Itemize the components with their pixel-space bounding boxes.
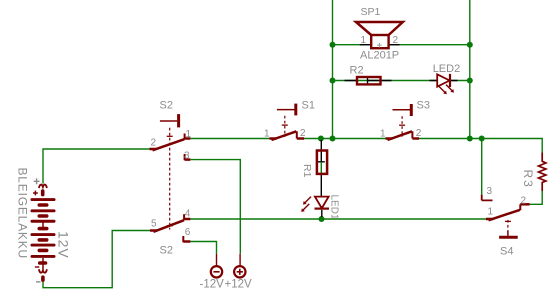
junction node: R2 row right <box>467 78 473 84</box>
svg-text:4: 4 <box>185 208 191 219</box>
wire: S4 pin3 vertical from bus <box>481 139 483 195</box>
wire: main bus y=138.5 from S2 pin1 to S1 <box>190 138 269 140</box>
wire: S2 pin6 net to -12V supply vertical <box>190 242 216 254</box>
label BLEIGELAKKU (rotated) <box>16 168 30 260</box>
label SP1 <box>361 6 381 18</box>
label S3 <box>417 100 430 112</box>
wire: battery minus to riser up to S2 pin5 <box>43 231 150 288</box>
pin number 4 of S2 <box>185 208 191 219</box>
svg-text:S2: S2 <box>160 100 173 112</box>
switch S3 contacts and lever <box>386 131 420 140</box>
switch S2 linkage dashed line <box>167 128 173 230</box>
label LED2 <box>433 63 461 75</box>
svg-text:-12V: -12V <box>200 279 225 291</box>
svg-text:2: 2 <box>300 128 306 139</box>
speaker SP1 pin leads <box>360 44 400 46</box>
wire: left vertical net from top edge down to main bus <box>332 0 334 139</box>
wire: battery plus riser and S2 common pin2 <box>43 149 149 184</box>
switch S1 linkage dashed line <box>282 116 288 137</box>
svg-text:2: 2 <box>416 128 422 139</box>
svg-text:1: 1 <box>264 129 270 140</box>
junction node: bus / right vertical <box>467 136 473 142</box>
wire: S4 pin2 to R3 bottom <box>530 191 543 204</box>
switch S4 pin3 contact hook <box>482 195 493 201</box>
LED D1 <box>301 197 329 217</box>
supply terminal -12V <box>211 254 222 278</box>
LED D2 <box>437 74 454 94</box>
svg-text:5: 5 <box>151 218 157 229</box>
supply terminal +12V <box>234 254 245 278</box>
switch S1 actuator T-bar <box>277 104 296 116</box>
label S4 <box>500 246 513 258</box>
label R1 (rotated) <box>301 164 313 178</box>
svg-text:S3: S3 <box>417 100 430 112</box>
speaker SP1 <box>356 22 403 48</box>
switch S4 contacts and lever <box>486 204 530 220</box>
label AL201P value <box>360 50 399 62</box>
label 12V (rotated) <box>56 231 72 259</box>
svg-text:S4: S4 <box>500 246 513 258</box>
wire: speaker row horizontal net <box>333 44 470 46</box>
pin number 3 of S2 <box>184 151 190 162</box>
pin number 2 of S2 <box>151 138 157 149</box>
svg-text:R1: R1 <box>301 164 313 178</box>
wire: right vertical net from top edge down to main bus <box>469 0 471 139</box>
svg-text:2: 2 <box>151 138 157 149</box>
svg-text:12V: 12V <box>56 231 72 259</box>
junction node: bus / R1 top <box>318 136 324 142</box>
junction node: speaker row left <box>330 42 336 48</box>
resistor R1 <box>317 151 327 174</box>
battery G1 BLEIGELAKKU <box>31 178 56 282</box>
resistor R2 <box>357 77 381 84</box>
label S1 <box>302 100 315 112</box>
svg-text:R3: R3 <box>521 170 535 189</box>
switch S3 actuator T-bar <box>393 104 412 116</box>
svg-text:1: 1 <box>186 129 192 140</box>
label S2 upper <box>160 100 173 112</box>
svg-text:AL201P: AL201P <box>360 50 399 62</box>
pin number 1 of S2 <box>186 129 192 140</box>
junction node: bottom bus / LED1 cathode <box>319 216 325 222</box>
pin number 1 of S1 <box>264 129 270 140</box>
pin number 3 of S4 <box>487 186 493 197</box>
junction node: speaker row right <box>467 42 473 48</box>
svg-text:LED1: LED1 <box>329 195 340 220</box>
resistor R1 pin leads <box>318 140 325 196</box>
wire: main bus S3 pin2 to right corner, down to R3 <box>419 139 542 153</box>
pin number 1 of SP1 <box>361 35 367 46</box>
switch S4 actuator T-bar <box>499 231 518 238</box>
label R2 <box>350 65 364 77</box>
label LED1 (rotated) <box>329 195 340 220</box>
svg-text:1: 1 <box>361 35 367 46</box>
svg-text:BLEIGELAKKU: BLEIGELAKKU <box>16 168 30 260</box>
svg-text:S2: S2 <box>160 245 173 257</box>
pin number 5 of S2 <box>151 218 157 229</box>
svg-text:R2: R2 <box>350 65 364 77</box>
label +12V <box>225 279 253 291</box>
pin number 6 of S2 <box>185 227 191 238</box>
switch S2 upper pole actuator T-bar <box>160 114 179 127</box>
resistor R3 (zigzag) <box>539 153 546 192</box>
svg-text:+12V: +12V <box>225 279 253 291</box>
LED2 pin leads <box>430 80 458 82</box>
svg-text:6: 6 <box>185 227 191 238</box>
svg-text:S1: S1 <box>302 100 315 112</box>
wire: S2 pin3 net to +12V supply vertical <box>190 160 240 254</box>
pin number 2 of S3 <box>416 128 422 139</box>
svg-text:3: 3 <box>184 151 190 162</box>
junction node: R2 row left <box>330 78 336 84</box>
wire: main bus S1 pin2 to S3 pin1 <box>304 138 385 140</box>
switch S4 linkage dashed line <box>505 220 511 231</box>
svg-text:1: 1 <box>380 129 386 140</box>
svg-text:LED2: LED2 <box>433 63 461 75</box>
label R3 (rotated) <box>521 170 535 189</box>
pin number 2 of S1 <box>300 128 306 139</box>
pin number 2 of S4 <box>521 195 527 206</box>
pin number 2 of SP1 <box>393 35 399 46</box>
svg-text:2: 2 <box>393 35 399 46</box>
pin number 1 of S4 <box>488 207 494 218</box>
svg-text:SP1: SP1 <box>361 6 381 18</box>
junction node: bus / S4 pin3 <box>479 136 485 142</box>
label -12V <box>200 279 225 291</box>
label S2 lower <box>160 245 173 257</box>
svg-text:1: 1 <box>488 207 494 218</box>
switch S2 upper pole contacts and lever <box>149 134 190 161</box>
junction node: bus / left vertical <box>330 136 336 142</box>
switch S2 lower pole contacts and lever <box>150 214 190 242</box>
switch S1 contacts and lever <box>269 131 304 140</box>
resistor R2 pin leads <box>345 77 392 83</box>
svg-text:3: 3 <box>487 186 493 197</box>
wire: R2/LED2 row horizontal net <box>333 80 470 82</box>
svg-text:2: 2 <box>521 195 527 206</box>
switch S3 linkage dashed line <box>399 116 405 137</box>
wire: long bottom bus from S2 pin4 to S4 pin1 <box>190 218 485 220</box>
pin number 1 of S3 <box>380 129 386 140</box>
